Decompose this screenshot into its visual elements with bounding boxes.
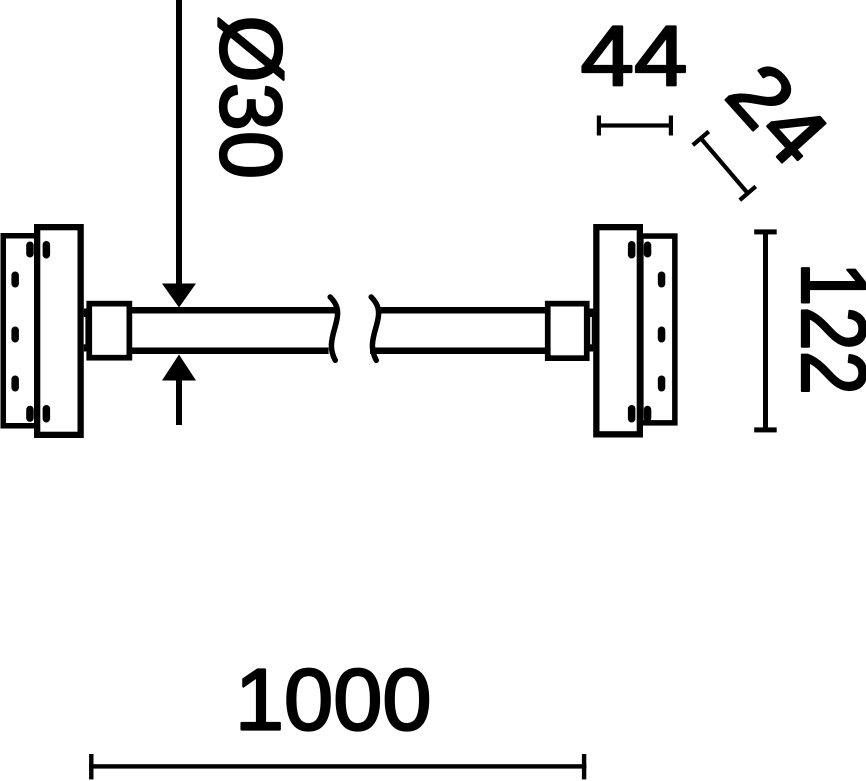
- slot holes left front plate: [43, 241, 51, 259]
- joint square left: [89, 304, 129, 358]
- dimension line Ø30 lower extension: [176, 380, 182, 425]
- svg-text:24: 24: [709, 46, 847, 184]
- dimension 44 line: [597, 123, 673, 127]
- tube bottom line right segment: [370, 348, 545, 355]
- dimension 44 right tick: [669, 116, 673, 136]
- arrowhead Ø30 up: [162, 355, 196, 381]
- joint collar left: [84, 309, 93, 352]
- slot holes right front plate: [628, 241, 636, 259]
- dimension 1000 right tick: [582, 754, 586, 779]
- tube top line right segment: [378, 307, 546, 314]
- dimension line Ø30 upper extension: [176, 0, 182, 284]
- joint square right: [548, 304, 587, 359]
- wall plate left front: [37, 227, 81, 435]
- dimension 44 left tick: [597, 116, 601, 136]
- slot holes left back plate: [26, 242, 34, 258]
- dimension 122 line: [763, 232, 768, 430]
- collar gap left: [84, 317, 86, 344]
- tube break curve 2: [371, 297, 378, 360]
- dimension 122 bottom tick: [754, 427, 777, 432]
- arrowhead Ø30 down: [162, 284, 196, 308]
- dimension 1000 left tick: [89, 754, 93, 779]
- tube bottom line left segment: [132, 348, 329, 355]
- wall plate right back: [641, 236, 675, 423]
- svg-text:44: 44: [581, 10, 688, 105]
- joint collar right: [584, 309, 593, 352]
- dimension 1000 line: [89, 764, 586, 768]
- wall plate right front: [596, 227, 640, 434]
- collar gap right: [590, 317, 592, 344]
- slot holes right back plate: [644, 242, 652, 258]
- wall plate left back: [3, 236, 37, 426]
- tube break curve 1: [330, 297, 337, 360]
- svg-text:Ø30: Ø30: [202, 15, 299, 179]
- svg-text:1000: 1000: [235, 652, 432, 749]
- dimension 122 top tick: [754, 229, 777, 234]
- dimension 24 line with ticks: [691, 130, 757, 202]
- svg-text:122: 122: [782, 262, 866, 395]
- tube top line left segment: [132, 307, 337, 314]
